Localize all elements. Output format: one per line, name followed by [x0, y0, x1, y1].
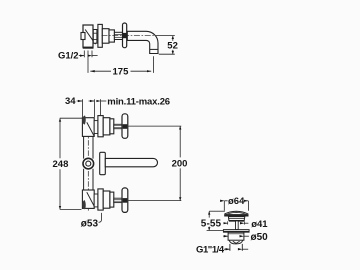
valve stem	[114, 32, 122, 39]
bottom valve flange	[98, 189, 103, 210]
wall block (in-wall valve body)	[83, 25, 93, 47]
bottom valve stem	[114, 198, 122, 202]
svg-text:ø41: ø41	[251, 219, 268, 230]
spout tee joint (circle)	[83, 158, 94, 169]
top valve neck	[94, 121, 98, 134]
dimension 52: centerline extension	[156, 35, 175, 37]
top valve body step	[110, 119, 114, 134]
valve body cylinder	[102, 29, 109, 44]
svg-text:ø50: ø50	[251, 232, 269, 243]
inlet square on wall block	[81, 33, 85, 40]
dimension 200 line	[179, 126, 181, 157]
svg-text:G1"1/4: G1"1/4	[196, 245, 225, 256]
dimension ø50 arrows	[223, 235, 228, 237]
spout tube (front)	[105, 158, 157, 166]
drain neck	[228, 217, 244, 221]
drain stem	[236, 221, 239, 230]
spout flange (front)	[100, 152, 106, 174]
riser pipe (vertical)	[83, 137, 85, 159]
drain cap rim	[224, 213, 248, 215]
top valve handle screw	[123, 124, 128, 129]
dimension min.11-max.26 arrow	[101, 100, 107, 102]
dimension 200 extension lines	[128, 125, 181, 127]
escutcheon flange (side)	[98, 24, 102, 47]
svg-text:52: 52	[167, 41, 178, 52]
dimension 34 extension lines	[82, 99, 84, 117]
diagonal line in wall block	[85, 30, 95, 45]
handle hub screw (dark square)	[123, 33, 127, 38]
drain cap dome	[224, 211, 248, 214]
top valve diagonal	[87, 122, 94, 136]
svg-text:G1/2: G1/2	[58, 51, 79, 62]
top valve flange	[98, 116, 103, 137]
dimension 175 extension lines	[87, 51, 89, 73]
drain tail tube	[229, 244, 231, 251]
bottom valve body step	[110, 192, 114, 207]
top valve elbow	[82, 118, 94, 137]
dimension ø64 stubs	[225, 200, 228, 202]
drain body	[228, 232, 244, 240]
dimension G1"1/4 arrows	[224, 248, 230, 250]
drain flange plate	[223, 230, 249, 233]
svg-text:175: 175	[113, 67, 130, 78]
dimension 5-55 extension lines	[209, 210, 225, 212]
cross handle (edge-on)	[123, 23, 127, 48]
svg-text:248: 248	[53, 159, 69, 170]
bottom valve elbow	[82, 190, 94, 208]
dimension 175 line	[90, 70, 111, 72]
top valve body	[103, 118, 110, 135]
riser centerline (dash-dot)	[87, 120, 89, 212]
svg-text:ø64: ø64	[228, 196, 245, 207]
drain bowl bottom	[229, 240, 243, 244]
dimension 52 line	[172, 36, 174, 41]
svg-text:min.11-max.26: min.11-max.26	[107, 96, 170, 107]
dimension ø41 extension lines	[227, 221, 229, 224]
bottom valve diagonal	[87, 192, 94, 206]
svg-text:ø53: ø53	[81, 219, 99, 230]
valve body step	[109, 30, 114, 42]
dimension ø64 extension lines	[223, 201, 225, 211]
dimension G1/2 arrows	[79, 55, 84, 57]
collar / locknut	[93, 30, 97, 44]
bottom valve handle	[122, 188, 128, 213]
bottom valve neck	[94, 194, 98, 207]
svg-text:200: 200	[172, 159, 188, 170]
bottom valve body	[103, 191, 110, 208]
drain bowl chevron	[233, 241, 240, 243]
bottom valve inlet port (crescent)	[82, 200, 86, 209]
spout (tube curving down)	[127, 31, 158, 53]
dimension 5-55 line	[208, 211, 210, 217]
dimension ø41 arrows	[224, 222, 228, 224]
top valve stem	[114, 124, 122, 128]
centerline (dash-dot) of valve axis	[102, 35, 157, 37]
dimension 248 extension lines	[60, 117, 82, 119]
top valve handle	[122, 114, 128, 139]
dimension 52 bottom extension	[159, 53, 175, 55]
svg-text:5-55: 5-55	[201, 219, 222, 230]
dimension G1/2 extension lines	[83, 51, 85, 58]
dimension 248 line	[59, 118, 61, 158]
svg-text:34: 34	[65, 96, 76, 107]
dimension 34 arrows	[77, 100, 83, 102]
top valve inlet port (crescent)	[82, 115, 86, 124]
bottom valve handle screw	[123, 198, 128, 203]
aerator line on spout outlet	[150, 48, 158, 50]
